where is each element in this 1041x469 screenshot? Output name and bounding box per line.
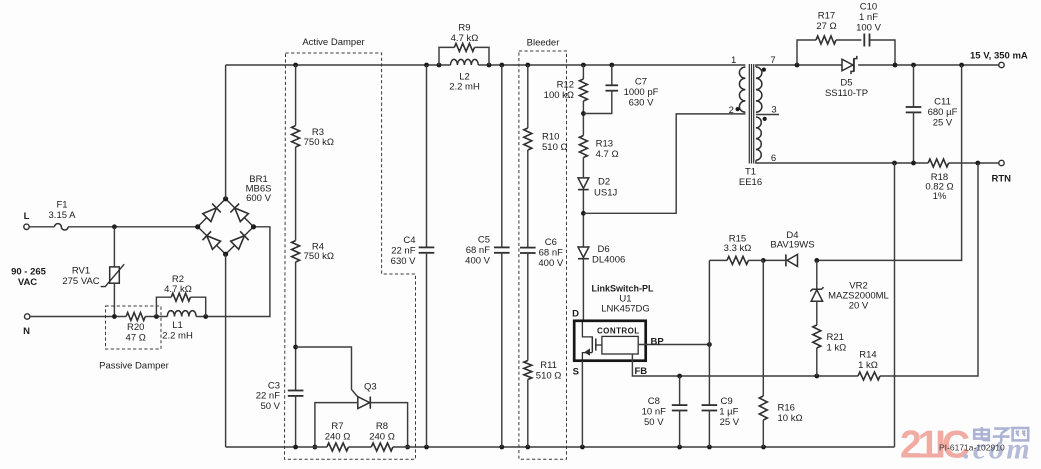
watermark 21IC <box>900 424 970 467</box>
node rail-C7 <box>609 63 614 68</box>
svg-text:T1: T1 <box>745 167 756 178</box>
node Q3 loop left <box>313 445 318 450</box>
svg-text:680 µF: 680 µF <box>928 107 958 118</box>
label LinkSwitch-PL <box>591 283 654 314</box>
svg-text:LinkSwitch-PL: LinkSwitch-PL <box>591 283 654 293</box>
svg-text:R21: R21 <box>827 332 844 343</box>
svg-text:R17: R17 <box>818 10 835 21</box>
wire R14-RTN <box>880 163 978 376</box>
svg-text:RV1: RV1 <box>72 266 90 277</box>
svg-text:R20: R20 <box>127 322 144 333</box>
bridge diode lower-right <box>231 231 249 249</box>
wire N line <box>30 316 126 318</box>
svg-text:R9: R9 <box>458 23 470 34</box>
dashed box Bleeder <box>519 51 567 459</box>
resistor R3 <box>292 126 334 148</box>
wire BP pin <box>638 337 709 348</box>
resistor R17 <box>797 10 861 65</box>
svg-text:1%: 1% <box>933 191 947 202</box>
svg-text:C10: C10 <box>860 2 877 13</box>
svg-text:3.15 A: 3.15 A <box>49 210 77 221</box>
label CONTROL <box>597 327 640 336</box>
svg-text:600 V: 600 V <box>246 193 271 204</box>
svg-text:N: N <box>23 326 30 337</box>
wire R4-C3 <box>295 262 297 391</box>
svg-text:1 nF: 1 nF <box>859 12 878 23</box>
watermark .com <box>963 433 1032 466</box>
wire Q3 loop <box>315 403 408 447</box>
svg-text:C9: C9 <box>721 396 733 407</box>
svg-text:400 V: 400 V <box>538 258 563 269</box>
wire R21-FB <box>816 348 818 376</box>
svg-text:L: L <box>24 211 30 222</box>
capacitor C5 <box>465 65 509 447</box>
svg-text:100 kΩ: 100 kΩ <box>544 90 574 101</box>
svg-text:Active Damper: Active Damper <box>302 37 364 48</box>
svg-text:Passive Damper: Passive Damper <box>99 361 169 372</box>
node R12-C7 <box>581 111 586 116</box>
node RTN-C11 <box>911 161 916 166</box>
node rail-C4 <box>424 63 429 68</box>
svg-text:RTN: RTN <box>992 174 1012 185</box>
wire FB pin <box>632 354 858 377</box>
bridge diode upper-left <box>203 204 221 222</box>
wire bridge- riser <box>225 254 227 447</box>
diode D2 <box>578 177 617 199</box>
svg-text:US1J: US1J <box>594 187 617 198</box>
svg-text:R11: R11 <box>540 360 557 371</box>
wire D4-R15 <box>763 259 787 261</box>
node rail-bleeder <box>525 63 530 68</box>
wire L line <box>29 226 197 228</box>
resistor R4 <box>292 241 334 262</box>
svg-text:C6: C6 <box>545 237 557 248</box>
bridge diode upper-right <box>230 204 248 222</box>
wire bleeder top <box>527 65 529 128</box>
dashed box Passive Damper <box>106 306 162 349</box>
capacitor C4 <box>391 65 435 447</box>
svg-text:22 nF: 22 nF <box>391 245 415 256</box>
svg-text:PI-6171a-102910: PI-6171a-102910 <box>939 442 1005 452</box>
wire R20-L1 <box>145 316 167 318</box>
node N-RV1 <box>112 314 117 319</box>
svg-text:LNK457DG: LNK457DG <box>601 303 650 314</box>
label BR1 <box>246 174 272 204</box>
node BP-C9 <box>707 342 712 347</box>
node N-R2 left <box>154 314 159 319</box>
svg-text:FB: FB <box>635 366 648 377</box>
label 90-265 VAC <box>11 267 47 288</box>
resistor R11 <box>524 360 562 382</box>
svg-text:1 kΩ: 1 kΩ <box>858 360 878 371</box>
node rail-R17 <box>795 63 800 68</box>
node rail-C9 <box>707 445 712 450</box>
svg-text:10 kΩ: 10 kΩ <box>778 413 803 424</box>
wire 15V feedback drop <box>817 65 962 260</box>
node rail-L2 left <box>437 63 442 68</box>
wire D4-R16 drop <box>762 260 764 396</box>
svg-text:L1: L1 <box>172 320 183 331</box>
svg-text:D: D <box>572 309 579 320</box>
svg-text:R7: R7 <box>331 421 343 432</box>
node FB-C8 <box>677 374 682 379</box>
node rail-S <box>580 445 585 450</box>
svg-text:R2: R2 <box>172 274 184 285</box>
wire R3 line top <box>295 65 297 126</box>
node rail-C5 bottom <box>499 445 504 450</box>
node rail-C8 <box>677 445 682 450</box>
wire S pin <box>581 361 583 447</box>
wire RV1 top <box>113 227 115 267</box>
capacitor C10 <box>856 2 895 65</box>
node rail-C4 bottom <box>424 445 429 450</box>
node rail-R11 bottom <box>525 445 530 450</box>
resistor R21 <box>813 325 846 354</box>
svg-text:275 VAC: 275 VAC <box>62 276 99 287</box>
svg-text:1 µF: 1 µF <box>719 406 738 417</box>
wire C6-R11 <box>527 253 529 361</box>
svg-text:BP: BP <box>651 337 665 348</box>
wire bottom rail <box>226 446 895 448</box>
pin label S <box>573 367 579 378</box>
svg-text:R8: R8 <box>376 421 388 432</box>
node rail-R3 <box>293 63 298 68</box>
label Active Damper <box>302 37 364 48</box>
resistor R16 <box>759 396 802 424</box>
node bridge top <box>223 196 228 201</box>
svg-text:Q3: Q3 <box>364 381 377 392</box>
inductor L2 <box>449 59 480 92</box>
node rail-R16 <box>761 445 766 450</box>
node rail-L2 right <box>487 63 492 68</box>
resistor R10 <box>524 128 568 153</box>
svg-text:25 V: 25 V <box>720 417 740 428</box>
IC U1 box <box>574 321 646 361</box>
dashed box Active Damper <box>285 53 416 459</box>
terminal 15V <box>999 62 1004 67</box>
wire RV1 bottom <box>113 283 115 316</box>
svg-text:C5: C5 <box>478 235 490 246</box>
pin label D <box>572 309 579 320</box>
svg-text:D6: D6 <box>598 244 610 255</box>
diode D6 <box>578 244 625 266</box>
transformer T1 primary <box>729 55 746 116</box>
control block <box>602 336 638 354</box>
node VR2 top <box>814 258 819 263</box>
svg-text:630 V: 630 V <box>629 98 654 109</box>
node L-RV1 <box>112 224 117 229</box>
svg-text:C4: C4 <box>403 235 415 246</box>
inductor L1 <box>162 311 196 342</box>
resistor R14 <box>858 350 880 380</box>
resistor R7 <box>325 421 351 451</box>
wire bridge+ riser <box>225 65 227 199</box>
node rail-down <box>959 63 964 68</box>
svg-text:47 Ω: 47 Ω <box>126 333 146 344</box>
svg-text:25 V: 25 V <box>933 118 953 129</box>
svg-text:510 Ω: 510 Ω <box>536 370 562 381</box>
wire R3-R4 <box>295 147 297 241</box>
node rail-R12 <box>581 63 586 68</box>
resistor R15 <box>709 233 763 264</box>
svg-text:R10: R10 <box>542 132 559 143</box>
svg-text:1: 1 <box>731 55 736 66</box>
svg-text:C11: C11 <box>934 97 951 108</box>
polarity dot secondary upper <box>762 68 766 72</box>
transformer T1 core <box>749 64 753 164</box>
thyristor Q3 <box>358 381 377 408</box>
wire Q3 gate <box>296 347 358 397</box>
node bridge right <box>251 224 256 229</box>
capacitor C3 <box>256 380 304 412</box>
svg-text:BAV19WS: BAV19WS <box>770 240 814 251</box>
node rail-C3 <box>293 445 298 450</box>
wire 15V rail <box>756 65 999 67</box>
watermark dianziwang <box>974 427 1028 444</box>
svg-text:630 V: 630 V <box>391 256 416 267</box>
wire top rail <box>226 64 746 66</box>
resistor R8 <box>369 421 395 451</box>
polarity dot secondary lower <box>763 117 767 121</box>
resistor R12 <box>544 79 588 101</box>
svg-text:R13: R13 <box>596 139 613 150</box>
wire R11-rail <box>527 380 529 448</box>
capacitor C9 <box>702 345 740 448</box>
svg-text:1000 pF: 1000 pF <box>624 87 659 98</box>
svg-text:CONTROL: CONTROL <box>597 327 640 336</box>
svg-text:750 kΩ: 750 kΩ <box>304 137 334 148</box>
capacitor C6 <box>520 237 564 269</box>
terminal RTN <box>992 160 1012 184</box>
svg-text:Bleeder: Bleeder <box>527 38 560 49</box>
svg-text:F1: F1 <box>56 200 67 211</box>
capacitor C11 <box>906 65 958 163</box>
svg-text:VAC: VAC <box>18 277 37 288</box>
wire D6-U1 drain <box>582 259 584 320</box>
label 15V output <box>970 51 1028 62</box>
bridge BR1 frame <box>198 199 254 254</box>
zener VR2 <box>810 260 889 325</box>
node N-R2 right <box>203 314 208 319</box>
fuse F1 <box>49 200 77 230</box>
diode D4 <box>770 230 814 267</box>
svg-text:C7: C7 <box>635 77 647 88</box>
node gate tap <box>293 345 298 350</box>
svg-text:750 kΩ: 750 kΩ <box>304 251 334 262</box>
svg-text:DL4006: DL4006 <box>592 255 625 266</box>
node bridge left <box>195 224 200 229</box>
label T1 <box>739 167 762 189</box>
svg-text:400 V: 400 V <box>465 255 490 266</box>
resistor R2 <box>156 274 205 317</box>
wire C3-rail <box>295 396 297 448</box>
svg-text:15 V, 350 mA: 15 V, 350 mA <box>970 51 1028 62</box>
svg-text:240 Ω: 240 Ω <box>369 431 395 442</box>
svg-text:50 V: 50 V <box>644 417 664 428</box>
label Passive Damper <box>99 361 169 372</box>
svg-text:2.2 mH: 2.2 mH <box>449 82 480 93</box>
svg-text:D5: D5 <box>840 78 852 89</box>
node rail-C10 <box>893 63 898 68</box>
wire R16-rail <box>762 420 764 447</box>
wire link RTN-bottom <box>894 163 896 447</box>
wire R12 top <box>582 65 584 79</box>
svg-text:3.3 kΩ: 3.3 kΩ <box>724 243 752 254</box>
transformer T1 secondary lower <box>756 117 776 164</box>
svg-text:68 nF: 68 nF <box>539 248 563 259</box>
svg-text:D2: D2 <box>598 177 610 188</box>
node rail-C11 <box>911 63 916 68</box>
svg-text:4.7 kΩ: 4.7 kΩ <box>451 33 479 44</box>
mosfet U1 internal <box>582 322 602 360</box>
transformer T1 secondary upper <box>756 55 776 112</box>
wire R12-R13 <box>582 101 584 136</box>
wire D2-D6 <box>582 190 584 247</box>
node FB-R21 <box>814 374 819 379</box>
wire R15-BP riser <box>708 260 710 344</box>
terminal L <box>24 211 30 229</box>
svg-text:50 V: 50 V <box>260 401 280 412</box>
capacitor C7 <box>583 65 658 114</box>
node bridge bottom <box>223 252 228 257</box>
svg-text:4.7 kΩ: 4.7 kΩ <box>164 284 192 295</box>
wire pin2 link <box>583 114 745 213</box>
label Bleeder <box>527 38 560 49</box>
node Q3 loop right <box>405 445 410 450</box>
svg-text:4.7 Ω: 4.7 Ω <box>596 149 619 160</box>
resistor R20 <box>126 313 146 344</box>
svg-text:2.2 mH: 2.2 mH <box>162 330 193 341</box>
diode D5 schottky <box>825 56 868 99</box>
wire L1-corner <box>196 227 270 317</box>
label PI number <box>939 442 1005 452</box>
svg-text:SS110-TP: SS110-TP <box>825 88 868 99</box>
wire RTN rail <box>756 160 999 163</box>
svg-text:S: S <box>573 367 579 378</box>
svg-text:3: 3 <box>771 104 776 115</box>
node drain junction <box>581 211 586 216</box>
node RTN-R14 <box>975 161 980 166</box>
wire R13-D2 <box>582 158 584 178</box>
pin 3 stub <box>756 104 779 115</box>
resistor R13 <box>579 136 618 161</box>
node D4 cathode <box>761 258 766 263</box>
svg-text:510 Ω: 510 Ω <box>542 142 568 153</box>
svg-text:27 Ω: 27 Ω <box>816 21 836 32</box>
svg-text:EE16: EE16 <box>739 177 762 188</box>
node RTN-link <box>892 161 897 166</box>
resistor R9 <box>439 23 489 65</box>
svg-text:20 V: 20 V <box>849 301 869 312</box>
node rail-C5 <box>499 63 504 68</box>
svg-text:C8: C8 <box>648 396 660 407</box>
terminal N <box>23 314 30 337</box>
svg-text:2: 2 <box>729 105 734 116</box>
svg-text:100 V: 100 V <box>856 23 881 34</box>
bridge diode lower-left <box>203 231 221 249</box>
svg-text:68 nF: 68 nF <box>466 245 490 256</box>
polarity dot primary <box>736 107 740 111</box>
varistor RV1 <box>62 264 124 287</box>
wire R10-C6 <box>527 150 529 248</box>
svg-text:10 nF: 10 nF <box>642 406 666 417</box>
capacitor C8 <box>642 376 688 447</box>
svg-text:R12: R12 <box>557 80 574 91</box>
svg-text:R16: R16 <box>778 403 795 414</box>
resistor R18 <box>925 159 953 202</box>
svg-text:1 kΩ: 1 kΩ <box>827 343 847 354</box>
svg-text:240 Ω: 240 Ω <box>325 431 351 442</box>
